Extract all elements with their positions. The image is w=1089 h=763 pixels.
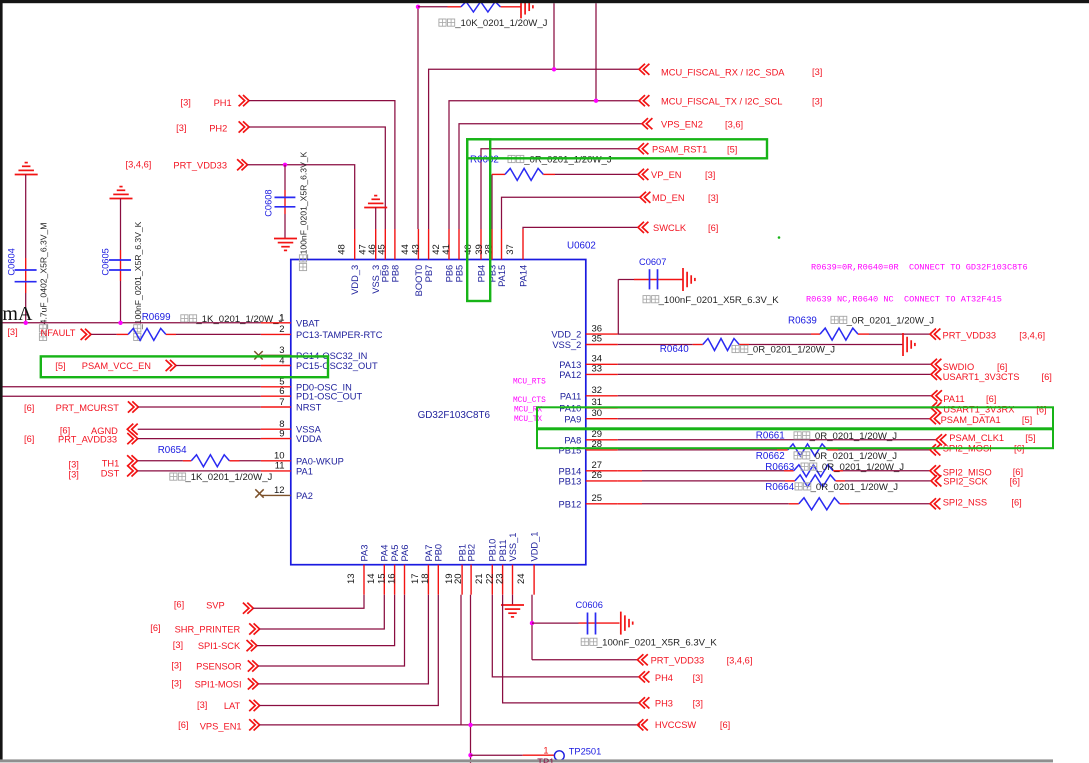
port SPI2_MOSI [930, 444, 940, 455]
svg-text:[3]: [3] [69, 459, 79, 469]
svg-text:VSS_1: VSS_1 [508, 533, 518, 562]
svg-text:PA10: PA10 [559, 404, 581, 414]
svg-text:PB6: PB6 [444, 265, 454, 283]
svg-text:PA15: PA15 [497, 265, 507, 287]
svg-text:R0639: R0639 [788, 315, 817, 326]
svg-text:SHR_PRINTER: SHR_PRINTER [175, 625, 241, 635]
resistor R0663 body on PB13 row [795, 475, 836, 487]
svg-text:_0R_0201_1/20W_J: _0R_0201_1/20W_J [846, 316, 935, 327]
svg-text:U0602: U0602 [567, 240, 596, 251]
capacitor C0605 plates [109, 259, 131, 261]
svg-text:VSS_2: VSS_2 [552, 340, 581, 350]
svg-text:MCU_RTS: MCU_RTS [513, 379, 546, 387]
pin 40 PB4 stub [480, 229, 482, 260]
svg-text:NRST: NRST [296, 403, 322, 413]
capacitor C0607 value label [643, 296, 659, 303]
wire PB12 to resistor R0664 body [618, 503, 642, 505]
svg-text:PB2: PB2 [466, 544, 476, 562]
svg-text:VBAT: VBAT [296, 318, 320, 328]
svg-text:PSAM_CLK1: PSAM_CLK1 [949, 433, 1004, 443]
pin 33 PA12 stub [586, 373, 618, 375]
wire PA12 to USART1_3V3CTS [618, 373, 931, 375]
svg-text:R0699: R0699 [142, 312, 171, 323]
capacitor C0606 value label [581, 638, 597, 645]
svg-text:9: 9 [279, 428, 284, 439]
svg-text:MCU_FISCAL_TX / I2C_SCL: MCU_FISCAL_TX / I2C_SCL [661, 97, 782, 107]
svg-text:30: 30 [592, 408, 603, 419]
svg-text:PB14: PB14 [559, 466, 582, 476]
resistor R0640 right lead and wire to ground [739, 344, 749, 346]
pin 3 PC14-OSC32_IN stub [261, 354, 291, 356]
svg-text:_0R_0201_1/20W_J: _0R_0201_1/20W_J [747, 345, 836, 356]
svg-text:7: 7 [279, 397, 284, 408]
pin 39 PB3 stub [491, 229, 493, 260]
wire to test point TP2501 [471, 754, 523, 756]
svg-text:PD1-OSC_OUT: PD1-OSC_OUT [296, 392, 362, 402]
wire PH2 to PB9 [249, 127, 385, 229]
svg-text:[3]: [3] [693, 698, 703, 708]
svg-text:25: 25 [592, 493, 603, 504]
svg-text:PB10: PB10 [488, 539, 498, 562]
svg-text:[6]: [6] [1011, 498, 1021, 508]
svg-text:[3]: [3] [812, 67, 822, 77]
wire PD0-OSC_IN from sheet edge [0, 386, 261, 388]
pin 31 PA10 stub [586, 407, 618, 409]
pin 25 PB12 stub [586, 503, 618, 505]
wire PB2 vertical to test point [470, 595, 472, 763]
ground above C0605 [110, 198, 133, 200]
pin 10 PA0-WKUP stub [261, 460, 291, 462]
wire junction to resistor 10K [418, 6, 448, 8]
svg-text:_0R_0201_1/20W_J: _0R_0201_1/20W_J [809, 451, 898, 462]
test point TP2501 pad [554, 751, 564, 761]
svg-text:PRT_AVDD33: PRT_AVDD33 [58, 435, 117, 445]
svg-text:PSENSOR: PSENSOR [196, 662, 242, 672]
svg-text:PB5: PB5 [454, 265, 464, 283]
port HVCCSW [637, 719, 647, 730]
svg-text:USART1_3V3CTS: USART1_3V3CTS [943, 372, 1020, 382]
svg-text:[6]: [6] [24, 403, 34, 413]
svg-text:13: 13 [346, 573, 357, 584]
pin 37 PA14 stub [522, 229, 524, 260]
svg-text:PRT_VDD33: PRT_VDD33 [173, 160, 227, 170]
wire vertical net to MCU_FISCAL_TX from top [595, 3, 597, 101]
svg-text:VPS_EN2: VPS_EN2 [661, 120, 703, 130]
svg-text:VDD_2: VDD_2 [551, 330, 581, 340]
svg-text:R0640: R0640 [660, 344, 689, 355]
svg-text:[3,4,6]: [3,4,6] [727, 655, 753, 665]
svg-text:C0607: C0607 [639, 257, 666, 267]
wire PA10 to USART1_3V3RX [618, 407, 931, 409]
svg-text:[6]: [6] [178, 720, 188, 730]
wire PB3 to resistor R0602 [491, 174, 493, 229]
IC U0602 microcontroller GD32F103C8T6 body [291, 260, 586, 565]
junction VBAT C0604 [24, 321, 28, 325]
wire PB13 to resistor R0663 body [618, 480, 642, 482]
junction at C0608 [283, 163, 287, 167]
svg-text:[6]: [6] [986, 394, 996, 404]
pin 18 PB0 stub [437, 565, 439, 595]
svg-text:[3]: [3] [7, 327, 17, 337]
wire SVP to PA3 [253, 595, 364, 609]
svg-text:26: 26 [592, 470, 603, 481]
capacitor C0604 leads [25, 175, 27, 259]
svg-text:PB0: PB0 [434, 544, 444, 562]
pin 23 VSS_1 stub [512, 565, 514, 595]
resistor R0602 body [505, 168, 543, 180]
port PSAM_RST1 [638, 143, 648, 154]
wire AGND to VSSA [138, 428, 261, 430]
pin 41 PB5 stub [458, 229, 460, 260]
wire PB14 to resistor R0662 body [618, 470, 642, 472]
port USART1_3V3CTS [931, 369, 941, 380]
port SWDIO [931, 359, 941, 370]
svg-text:PA4: PA4 [380, 545, 390, 562]
svg-text:PSAM_RST1: PSAM_RST1 [652, 145, 707, 155]
pin 30 PA9 stub [586, 418, 618, 420]
svg-text:[5]: [5] [1025, 433, 1035, 443]
capacitor C0606 plates [587, 613, 589, 635]
svg-text:24: 24 [516, 573, 527, 584]
ground right of 10K resistor [520, 0, 522, 18]
resistor R0640 value label [732, 345, 748, 352]
svg-text:C0608: C0608 [264, 189, 274, 216]
sheet border left [0, 2, 3, 760]
resistor R0639 body [820, 328, 858, 340]
svg-text:PH4: PH4 [655, 673, 673, 683]
svg-text:[6]: [6] [174, 600, 184, 610]
wire vertical net to MCU_FISCAL_RX from top [553, 3, 555, 69]
wire VSS_2 to resistor R0640 [618, 344, 693, 346]
wire PSAM_VCC_EN to PC15 [176, 365, 261, 367]
capacitor C0607 right lead [659, 279, 683, 281]
wire PB10 to PH4 [492, 595, 639, 677]
svg-text:PB3: PB3 [487, 265, 497, 283]
resistor R0639 value label [831, 316, 847, 323]
svg-text:PB9: PB9 [381, 265, 391, 283]
svg-text:BOOT0: BOOT0 [414, 265, 424, 297]
resistor R0699 right lead and wire to PC13 [166, 333, 176, 335]
svg-text:[5]: [5] [727, 144, 737, 154]
svg-text:41: 41 [441, 244, 452, 255]
pin 35 VSS_2 stub [586, 344, 618, 346]
wire R0661 to SPI2_MOSI [827, 449, 838, 451]
wire TH1 to resistor R0654 [138, 460, 183, 462]
pin 32 PA11 stub [586, 395, 618, 397]
svg-text:C0606: C0606 [576, 600, 603, 610]
pin 13 PA3 stub [363, 565, 365, 595]
port VP_EN [638, 169, 648, 180]
pin 19 PB1 stub [461, 565, 463, 595]
svg-text:PA3: PA3 [359, 545, 369, 562]
wire SHR_PRINTER to PA4 [260, 595, 385, 629]
wire PH1 to PB8 [249, 101, 395, 229]
svg-text:36: 36 [592, 323, 603, 334]
pin 36 VDD_2 stub [586, 333, 618, 335]
sheet border top [0, 0, 1089, 3]
port MCU_FISCAL_RX / I2C_SDA [639, 64, 649, 75]
svg-text:VP_EN: VP_EN [651, 170, 682, 180]
svg-text:HVCCSW: HVCCSW [655, 720, 697, 730]
svg-text:_0R_0201_1/20W_J: _0R_0201_1/20W_J [523, 155, 612, 166]
capacitor C0608 plates [275, 196, 296, 198]
wire SPI1-MOSI to PA7 [258, 595, 428, 684]
pin 44 BOOT0 stub [417, 229, 419, 260]
ground right of C0607 [682, 268, 684, 291]
svg-text:38: 38 [483, 244, 494, 255]
wire PRT_MCURST to NRST [138, 406, 260, 408]
wire NFAULT to resistor R0699 [91, 333, 117, 335]
svg-text:_0R_0201_1/20W_J: _0R_0201_1/20W_J [816, 462, 905, 473]
svg-text:SPI1-SCK: SPI1-SCK [198, 641, 241, 651]
pin 45 PB8 stub [394, 229, 396, 260]
pin 1 VBAT stub [261, 322, 291, 324]
ground above VSS_3 [364, 207, 387, 209]
svg-text:6: 6 [279, 386, 284, 397]
svg-text:_4.7uF_0402_X5R_6.3V_M: _4.7uF_0402_X5R_6.3V_M [39, 223, 49, 331]
svg-text:TP2501: TP2501 [569, 747, 602, 757]
pin 46 PB9 stub [384, 229, 386, 260]
svg-text:[6]: [6] [150, 623, 160, 633]
wire PA8 to PSAM_CLK1 [618, 439, 936, 441]
svg-text:VDDA: VDDA [296, 434, 323, 444]
wire VDD_2 to C0607 [617, 280, 619, 335]
wire PA15 to MD_EN [502, 197, 641, 229]
wire PA11 to port PA11 [618, 395, 932, 397]
no-connect X on pin 12 [255, 489, 263, 497]
pin 48 VDD_3 stub [354, 229, 356, 260]
pin 29 PA8 stub [586, 439, 618, 441]
pin 34 PA13 stub [586, 363, 618, 365]
pin 15 PA5 stub [394, 565, 396, 595]
resistor R0661 value label [794, 432, 810, 439]
wire to PRT_VDD33 bottom [532, 659, 637, 661]
pin 28 PB15 stub [586, 449, 618, 451]
svg-text:PRT_MCURST: PRT_MCURST [56, 403, 120, 413]
wire ground to VSS_3 [375, 208, 377, 230]
svg-text:PA2: PA2 [296, 491, 313, 501]
pin 7 NRST stub [261, 406, 291, 408]
resistor R0662 body on PB14 row [794, 465, 833, 477]
port PRT_VDD33 bottom [637, 654, 647, 665]
svg-text:R0661: R0661 [756, 431, 785, 442]
wire VDD_2 to resistor R0639 [618, 333, 811, 335]
svg-text:32: 32 [592, 385, 603, 396]
svg-text:SPI1-MOSI: SPI1-MOSI [195, 680, 242, 690]
svg-text:PB8: PB8 [390, 265, 400, 283]
svg-text:[6]: [6] [720, 720, 730, 730]
svg-text:R0664: R0664 [765, 482, 794, 493]
port SPI2_SCK [931, 475, 941, 486]
capacitor C0604 value label [39, 223, 49, 341]
svg-text:PA13: PA13 [559, 360, 581, 370]
svg-text:PA7: PA7 [424, 545, 434, 562]
svg-text:16: 16 [386, 573, 397, 584]
highlight box PSAM_VCC_EN net [41, 356, 328, 377]
capacitor C0604 plates [15, 269, 37, 271]
wire PD1-OSC_OUT from sheet edge [0, 395, 261, 397]
svg-text:TP1: TP1 [537, 757, 554, 763]
svg-text:PB7: PB7 [424, 265, 434, 283]
svg-text:PA11: PA11 [560, 391, 581, 401]
wire PB6 to MCU_FISCAL_TX [449, 101, 639, 229]
svg-text:[3]: [3] [69, 470, 79, 480]
svg-text:GD32F103C8T6: GD32F103C8T6 [418, 410, 491, 421]
no-connect X on pin 3 [254, 351, 262, 359]
svg-text:PA1: PA1 [296, 466, 313, 476]
svg-text:C0605: C0605 [101, 248, 111, 275]
svg-text:1: 1 [543, 745, 548, 755]
pin 17 PA7 stub [427, 565, 429, 595]
svg-text:48: 48 [337, 244, 348, 255]
port PA11 [932, 390, 942, 401]
svg-text:[3]: [3] [197, 700, 207, 710]
svg-text:_0R_0201_1/20W_J: _0R_0201_1/20W_J [809, 431, 898, 442]
svg-text:[3]: [3] [181, 97, 191, 107]
ground below VSS_1 [512, 595, 514, 605]
svg-text:18: 18 [420, 573, 431, 584]
port PSAM_CLK1 [936, 434, 946, 445]
svg-text:DST: DST [101, 468, 120, 478]
pin 47 VSS_3 stub [375, 229, 377, 260]
svg-text:PSAM_DATA1: PSAM_DATA1 [941, 415, 1001, 425]
svg-text:[6]: [6] [1010, 477, 1020, 487]
highlight box PSAM_RST1 net [467, 139, 767, 158]
svg-text:[3,6]: [3,6] [725, 119, 743, 129]
resistor 10K pull-up leads [448, 6, 461, 8]
resistor 10K pull-up body [461, 2, 501, 12]
pin 6 PD1-OSC_OUT stub [261, 395, 291, 397]
svg-text:R0662: R0662 [756, 451, 785, 462]
pin 43 PB7 stub [428, 229, 430, 260]
pin 14 PA4 stub [383, 565, 385, 595]
resistor R0662 value label [794, 452, 810, 459]
wire PA14 to SWCLK [523, 227, 638, 229]
svg-text:[3]: [3] [171, 679, 181, 689]
svg-text:PH2: PH2 [209, 123, 227, 133]
svg-text:37: 37 [505, 244, 516, 255]
wire LAT to PB0 [260, 595, 439, 706]
svg-text:MD_EN: MD_EN [652, 193, 685, 203]
resistor R0661 body on PB15 row [788, 444, 828, 456]
resistor R0640 body [703, 339, 739, 351]
svg-text:_0R_0201_1/20W_J: _0R_0201_1/20W_J [810, 482, 899, 493]
svg-text:[3]: [3] [176, 123, 186, 133]
svg-text:[6]: [6] [1036, 404, 1046, 414]
svg-text:MCU_TX: MCU_TX [514, 416, 542, 424]
svg-text:PA9: PA9 [564, 414, 581, 424]
wire R0664 to SPI2_NSS [840, 503, 850, 505]
svg-text:PA8: PA8 [564, 435, 581, 445]
svg-text:5mA: 5mA [0, 303, 33, 325]
port PSAM_DATA1 [930, 413, 940, 424]
resistor R0664 body on PB12 row [799, 498, 840, 510]
junction on MCU_FISCAL_TX net [594, 99, 598, 103]
svg-text:PRT_VDD33: PRT_VDD33 [651, 656, 705, 666]
svg-text:R0639 NC,R0640 NC CONNECT TO: R0639 NC,R0640 NC CONNECT TO AT32F415 [806, 295, 1002, 305]
svg-text:_1K_0201_1/20W_J: _1K_0201_1/20W_J [184, 472, 272, 483]
svg-text:PH3: PH3 [655, 699, 673, 709]
svg-text:_100nF_0201_X5R_6.3V_K: _100nF_0201_X5R_6.3V_K [596, 637, 718, 648]
wire VPS_EN1 to PB1 and HVCCSW [260, 724, 640, 726]
port SWCLK [638, 222, 648, 233]
svg-text:PB4: PB4 [476, 265, 486, 283]
pin 24 VDD_1 stub [533, 565, 535, 595]
pin 12 PA2 stub [261, 494, 291, 496]
junction PB2 VPS_EN1 [468, 723, 472, 727]
resistor R0654 body [191, 455, 229, 467]
capacitor C0605 leads [120, 199, 122, 251]
svg-text:23: 23 [494, 573, 505, 584]
pin 20 PB2 stub [470, 565, 472, 595]
svg-text:[3]: [3] [708, 193, 718, 203]
capacitor C0605 value label [133, 221, 143, 340]
svg-text:R0602: R0602 [470, 154, 499, 165]
svg-text:PB15: PB15 [559, 446, 582, 456]
svg-text:SPI2_SCK: SPI2_SCK [943, 477, 988, 487]
junction VDD_1 C0606 [530, 621, 534, 625]
resistor R0699 value label [181, 315, 197, 322]
wire VDD_1 to C0606 and PRT_VDD33 [531, 595, 533, 660]
pin 38 PA15 stub [501, 229, 503, 260]
svg-text:PB13: PB13 [559, 477, 582, 487]
svg-text:[3]: [3] [171, 661, 181, 671]
wire PB11 to PH3 [503, 595, 639, 703]
pin 26 PB13 stub [586, 480, 618, 482]
port PH3 [639, 697, 649, 708]
svg-text:VDD_3: VDD_3 [350, 265, 360, 295]
wire PSENSOR to PA6 [258, 595, 404, 666]
port USART1_3V3RX [931, 402, 941, 413]
wire PB7 to MCU_FISCAL_RX [429, 69, 639, 229]
svg-text:PA11: PA11 [943, 394, 964, 404]
svg-text:2: 2 [279, 324, 284, 335]
port PRT_VDD33 right [930, 329, 940, 340]
svg-text:LAT: LAT [224, 701, 241, 711]
svg-text:USART1_3V3RX: USART1_3V3RX [943, 404, 1014, 414]
junction at BOOT0 pull-up [416, 5, 420, 9]
wire PA13 to SWDIO [618, 363, 931, 365]
port MCU_FISCAL_TX / I2C_SCL [639, 95, 649, 106]
wire PRT_VDD33 to VDD_3 [248, 165, 355, 229]
svg-text:[3]: [3] [812, 96, 822, 106]
pin 16 PA6 stub [404, 565, 406, 595]
wire PB15 to resistor R0661 body [618, 449, 777, 451]
resistor R0654 right lead and wire to PA0 [229, 460, 239, 462]
svg-text:PH1: PH1 [214, 98, 232, 108]
resistor R0663 value label [801, 463, 817, 470]
wire SPI1-SCK to PA5 [257, 595, 395, 646]
svg-text:R0639=0R,R0640=0R CONNECT TO: R0639=0R,R0640=0R CONNECT TO GD32F103C8T… [811, 263, 1028, 273]
port SPI2_MISO [930, 465, 940, 476]
resistor R0602 value label [508, 155, 524, 162]
svg-text:[5]: [5] [1022, 415, 1032, 425]
port SPI2_NSS [930, 498, 940, 509]
capacitor C0608 value label [299, 151, 309, 270]
svg-text:SWDIO: SWDIO [943, 362, 975, 372]
highlight box PB4 column [467, 139, 490, 301]
svg-text:R0663: R0663 [765, 462, 794, 473]
ground right of R0640 [902, 333, 904, 356]
resistor R0699 body [128, 328, 166, 340]
capacitor C0608 leads [284, 165, 286, 190]
svg-text:[3,4,6]: [3,4,6] [1019, 330, 1045, 340]
port VPS_EN2 [642, 118, 652, 129]
svg-text:VPS_EN1: VPS_EN1 [200, 721, 242, 731]
svg-text:PA6: PA6 [400, 545, 410, 562]
svg-text:[5]: [5] [55, 361, 65, 371]
svg-text:43: 43 [410, 244, 421, 255]
